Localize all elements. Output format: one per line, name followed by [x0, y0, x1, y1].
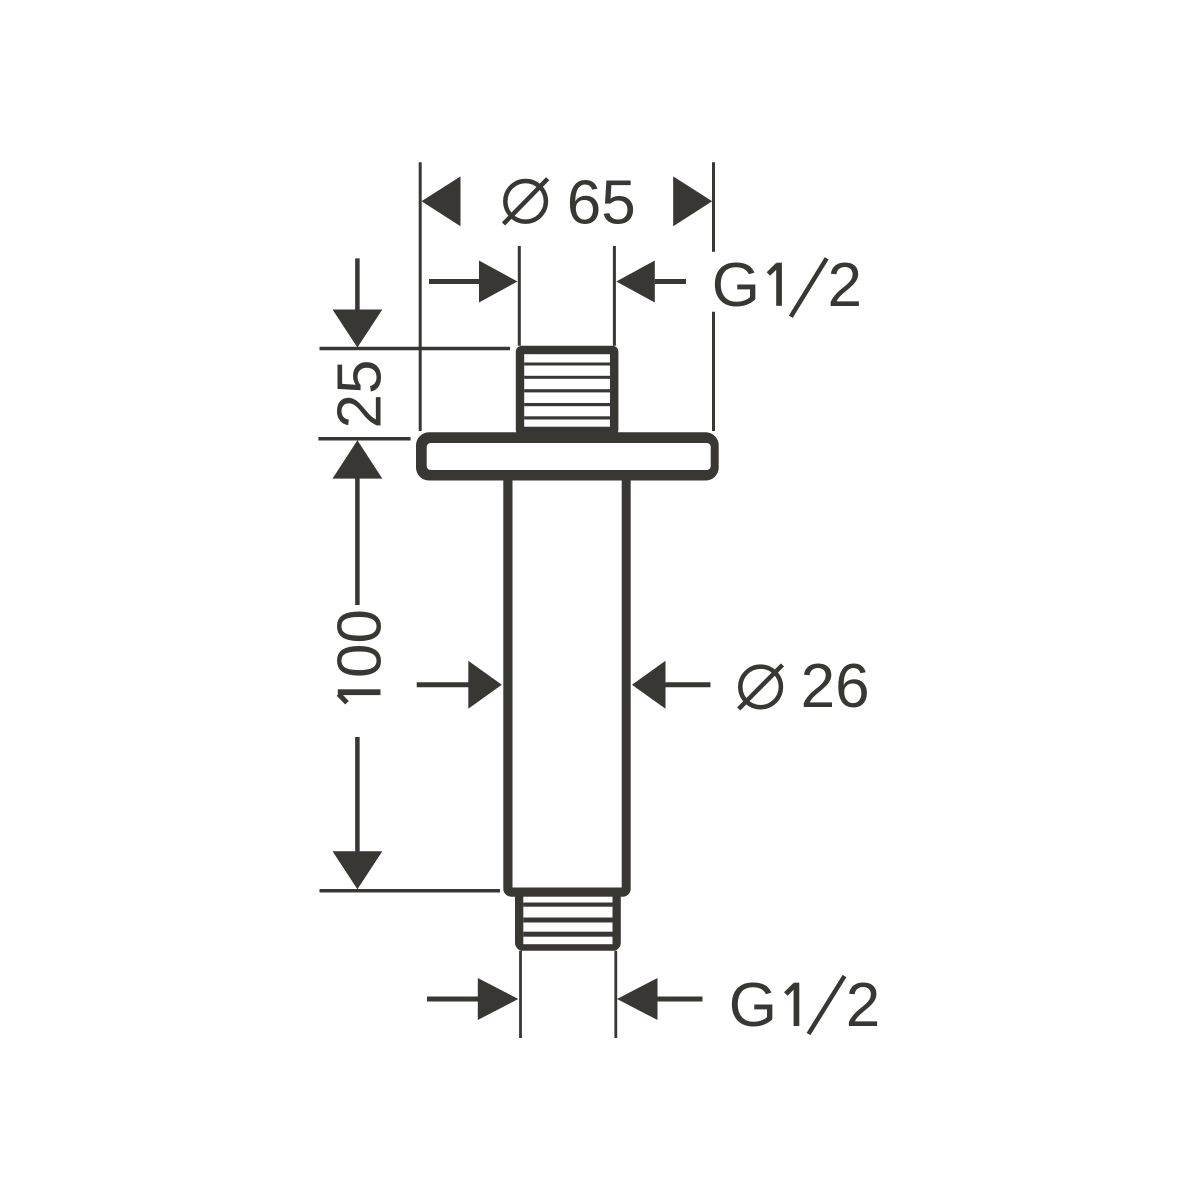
- diameter symbol of Ø65: [505, 181, 546, 222]
- dim G1/2 top right arrow: [616, 261, 655, 303]
- svg-text:G: G: [729, 971, 777, 1040]
- bottom thread stripe 3: [523, 932, 612, 937]
- extension line at flange top: [318, 437, 410, 441]
- dim G1/2 top left arrow: [429, 279, 481, 284]
- left dimension column line lower: [355, 737, 360, 852]
- svg-text:26: 26: [801, 652, 870, 721]
- top thread stripe 4: [524, 403, 610, 406]
- svg-text:G: G: [712, 251, 760, 320]
- top thread stripe 5: [524, 416, 610, 419]
- top thread stripe 2: [524, 376, 610, 379]
- svg-text:2: 2: [846, 971, 880, 1040]
- extension line at pipe bottom: [320, 889, 501, 893]
- flange (escutcheon): [416, 432, 719, 480]
- top thread stripe 1: [524, 363, 610, 366]
- pipe body: [503, 470, 630, 897]
- dim Ø65 extension line left: [419, 162, 422, 431]
- svg-text:65: 65: [567, 169, 636, 238]
- svg-text:00: 00: [326, 609, 395, 678]
- dim G1/2 top extension line right: [613, 246, 616, 346]
- bottom thread stripe 1: [523, 903, 612, 907]
- diameter symbol of Ø26: [740, 667, 781, 708]
- svg-text:25: 25: [326, 360, 395, 429]
- dim Ø26 right arrow: [632, 661, 666, 709]
- left dimension column line upper: [355, 258, 360, 312]
- dim G1/2 bottom right arrow: [617, 978, 658, 1020]
- dim Ø65 extension line right (broken around G1/2 text): [712, 162, 715, 252]
- svg-text:2: 2: [828, 251, 862, 320]
- dim 25 arrow down: [333, 310, 383, 348]
- dim G1/2 bottom left arrow: [427, 997, 478, 1002]
- dim 100 arrow down: [333, 851, 383, 889]
- dim Ø65 arrowhead right: [673, 176, 712, 226]
- extension line at thread top: [320, 347, 511, 351]
- dim Ø65 arrowhead left: [422, 176, 461, 226]
- top thread body: [516, 346, 619, 436]
- dim G1/2 bottom extension line left: [519, 951, 522, 1038]
- dim 100 arrow up: [333, 440, 383, 478]
- left dimension column line middle: [355, 478, 360, 605]
- bottom thread body: [515, 890, 621, 951]
- bottom thread stripe 2: [523, 918, 612, 923]
- dim G1/2 bottom extension line right: [614, 951, 617, 1038]
- dim G1/2 top extension line left: [518, 246, 521, 346]
- top thread stripe 3: [524, 389, 610, 392]
- dim Ø26 left arrow: [417, 682, 470, 687]
